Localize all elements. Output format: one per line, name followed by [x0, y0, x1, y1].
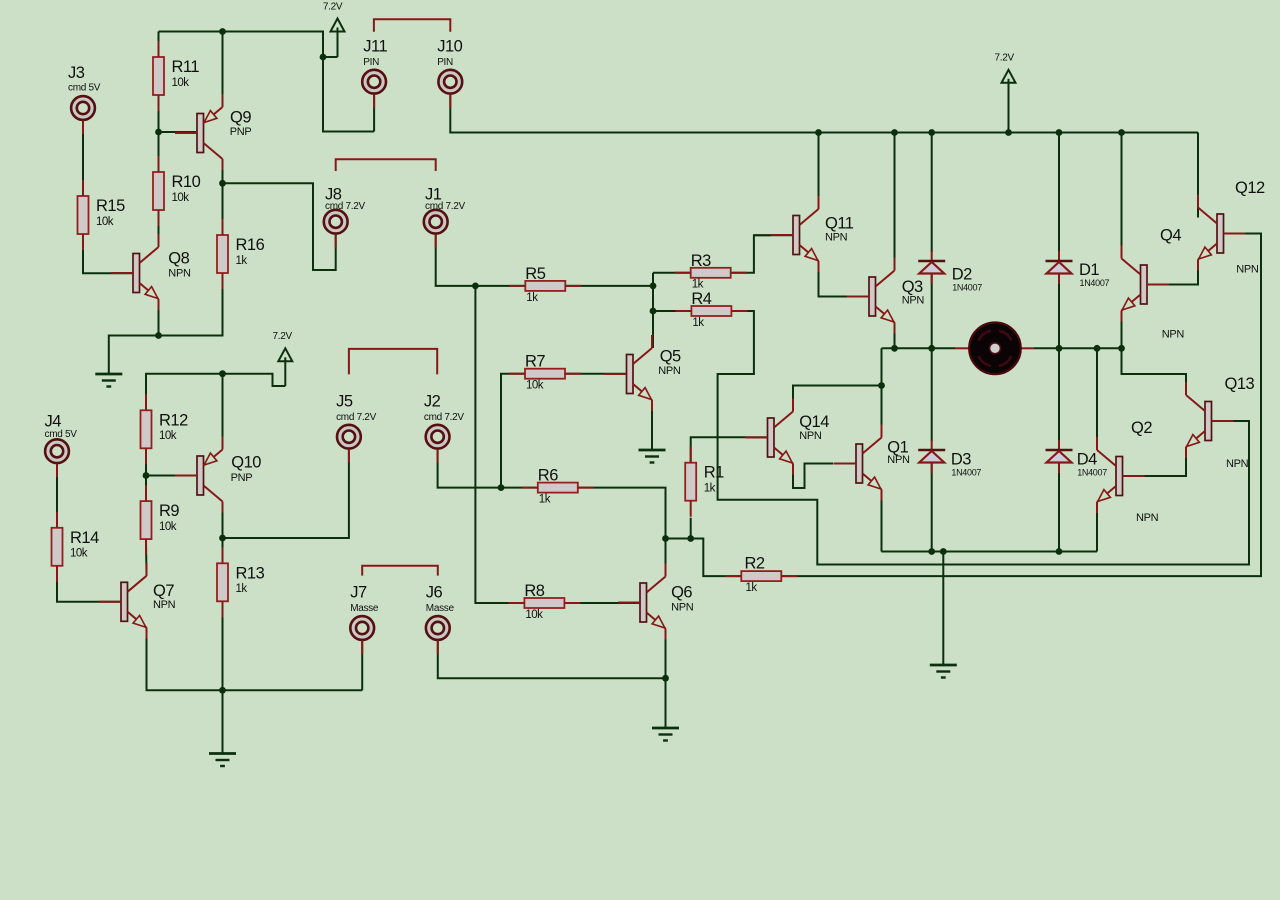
- connector J8: [324, 210, 348, 234]
- ground G5 H-bridge: [930, 664, 957, 667]
- wire Q12 collector: [1197, 133, 1199, 218]
- svg-text:1k: 1k: [692, 317, 704, 329]
- wire Q10 base: [146, 475, 196, 477]
- connector body bracket J7-J6: [362, 566, 438, 576]
- svg-text:NPN: NPN: [153, 599, 176, 611]
- power symbol P3 top-right: [1002, 70, 1016, 83]
- svg-text:10k: 10k: [159, 430, 177, 442]
- diode D4: [1058, 440, 1060, 450]
- wire D1 column: [1058, 133, 1060, 253]
- wire Q4 emitter: [1121, 311, 1123, 349]
- wire Q8 net gnd2 column: [158, 335, 160, 337]
- wire J3 to R15: [82, 121, 84, 197]
- svg-text:J7: J7: [350, 583, 367, 601]
- junction Q10e tap: [219, 370, 226, 377]
- wire R12 bottom node: [145, 450, 147, 475]
- junction rail P3: [1005, 129, 1012, 136]
- svg-text:1k: 1k: [526, 292, 538, 304]
- wire Q11 emitter to Q3 base: [819, 261, 869, 297]
- svg-text:Q3: Q3: [902, 278, 923, 296]
- resistor R8: [524, 598, 564, 608]
- wire Q5 emitter to gnd: [651, 400, 653, 450]
- wire motor row right: [1034, 347, 1122, 349]
- junction J1/R5: [472, 283, 479, 290]
- svg-text:cmd 7.2V: cmd 7.2V: [424, 412, 464, 423]
- wire gnd stub G5: [942, 552, 944, 666]
- resistor R11: [153, 57, 164, 95]
- ground G2 lower-left stage: [209, 752, 236, 755]
- svg-text:Q12: Q12: [1235, 179, 1265, 197]
- wire J2 drop: [438, 449, 538, 488]
- junction node B R1: [687, 535, 694, 542]
- svg-text:1N4007: 1N4007: [1080, 278, 1110, 288]
- svg-text:1k: 1k: [692, 279, 704, 291]
- wire J4 to R14: [56, 464, 58, 528]
- ground G1 left stage: [95, 373, 122, 376]
- wire Q2 collector: [1096, 348, 1098, 450]
- wire Q3 collector: [894, 133, 896, 271]
- svg-text:NPN: NPN: [1226, 458, 1249, 470]
- wire J7 drop: [361, 641, 363, 691]
- svg-text:Q13: Q13: [1225, 375, 1255, 393]
- power symbol P1 top-left: [331, 19, 345, 32]
- wire D1 to motor row: [1058, 274, 1060, 349]
- wire D4 column: [1058, 348, 1060, 441]
- svg-text:PNP: PNP: [231, 472, 253, 484]
- svg-text:NPN: NPN: [799, 430, 822, 442]
- svg-text:Masse: Masse: [426, 603, 455, 614]
- connector J4: [45, 439, 69, 463]
- junction rail Q3: [891, 129, 898, 136]
- svg-text:10k: 10k: [172, 192, 190, 204]
- resistor R14: [52, 528, 63, 566]
- junction D3 bottom: [928, 548, 935, 555]
- svg-text:Q14: Q14: [799, 413, 829, 431]
- resistor R3: [691, 268, 731, 278]
- junction Q8 emitter: [155, 332, 162, 339]
- svg-text:7.2V: 7.2V: [273, 331, 293, 342]
- svg-text:J3: J3: [68, 64, 85, 82]
- connector J11: [362, 70, 386, 94]
- svg-text:PIN: PIN: [363, 57, 379, 68]
- diode D1: [1058, 251, 1060, 261]
- svg-text:NPN: NPN: [902, 295, 925, 307]
- svg-text:PIN: PIN: [437, 57, 453, 68]
- wire motor node down: [881, 348, 883, 385]
- wire motor row: [882, 347, 956, 349]
- wire Q14 collector run: [793, 386, 882, 412]
- junction J2/R7/R6: [498, 484, 505, 491]
- svg-text:Q2: Q2: [1131, 419, 1152, 437]
- svg-text:R14: R14: [70, 529, 99, 547]
- svg-text:1k: 1k: [704, 483, 716, 495]
- connector body bracket J5-J2: [349, 349, 437, 375]
- wire node A to node B: [666, 538, 691, 540]
- svg-text:10k: 10k: [159, 521, 177, 533]
- wire Q4 base to Q12 emitter: [1148, 260, 1198, 285]
- wire R12 feed: [146, 374, 285, 411]
- wire Q4 collector: [1121, 133, 1123, 259]
- wire R9 bottom to Q7 collector: [145, 540, 148, 576]
- svg-text:R7: R7: [525, 353, 545, 371]
- wire Q7 emitter run: [147, 628, 363, 691]
- wire Q13 collector run: [1122, 348, 1187, 395]
- junction rail Q4: [1118, 129, 1125, 136]
- wire D3 column: [931, 348, 933, 441]
- resistor R5: [525, 281, 565, 291]
- svg-text:Q11: Q11: [825, 215, 854, 233]
- svg-text:Q10: Q10: [231, 454, 261, 472]
- svg-text:D2: D2: [952, 266, 972, 284]
- svg-text:Masse: Masse: [350, 603, 379, 614]
- svg-text:J10: J10: [437, 37, 462, 55]
- wire main +7.2V rail from J10: [450, 94, 1198, 133]
- wire Q1 collector: [881, 386, 883, 438]
- svg-text:1k: 1k: [746, 582, 758, 594]
- resistor R12: [141, 410, 152, 448]
- wire R14 to Q7 base: [57, 566, 121, 602]
- junction Q2 collector row: [1094, 345, 1101, 352]
- connector body bracket J8-J1: [336, 159, 436, 171]
- svg-text:R12: R12: [159, 411, 188, 429]
- svg-text:R2: R2: [745, 555, 765, 573]
- transistor Q8 (NPN): [133, 254, 140, 293]
- wire J1 node down to R8: [475, 286, 524, 603]
- connector body bracket J11-J10: [374, 19, 450, 32]
- wire R8 right to Q6 base: [564, 602, 640, 604]
- svg-text:R4: R4: [691, 290, 711, 308]
- ground G3 Q5: [639, 449, 666, 452]
- wire Q9 collector down to node: [222, 159, 224, 183]
- wire node B to R2: [691, 539, 742, 577]
- junction Q9c/R16/J8: [219, 180, 226, 187]
- svg-text:1N4007: 1N4007: [951, 468, 981, 478]
- wire Q13 emitter to Q2 base: [1123, 447, 1187, 476]
- wire R1 bottom to node B: [690, 518, 692, 539]
- resistor R7: [525, 369, 565, 379]
- svg-text:Q7: Q7: [153, 582, 174, 600]
- wire R16 top: [222, 183, 224, 235]
- wire Q14 emitter to Q1 base: [793, 464, 834, 489]
- junction D1/D4 row: [1056, 345, 1063, 352]
- wire D2 to motor row: [931, 274, 933, 349]
- wire Q11 base stub: [754, 234, 771, 236]
- svg-text:NPN: NPN: [887, 454, 910, 466]
- wire D3 to bottom row: [931, 463, 933, 552]
- junction Q3 emitter row: [891, 345, 898, 352]
- svg-text:Q4: Q4: [1160, 226, 1181, 244]
- resistor R4: [691, 306, 731, 316]
- svg-text:R9: R9: [159, 502, 179, 520]
- junction G5 bottom: [940, 548, 947, 555]
- resistor R9: [141, 501, 152, 539]
- svg-text:PNP: PNP: [230, 126, 252, 138]
- wire R5 right to column: [565, 285, 653, 287]
- svg-text:D4: D4: [1077, 451, 1097, 469]
- wire R9 top: [145, 476, 147, 502]
- wire 7.2V rail top-left to J11 feed: [159, 32, 375, 132]
- power symbol P2 mid-left: [278, 348, 292, 361]
- svg-text:R13: R13: [236, 564, 265, 582]
- wire D4 to bottom row: [1058, 463, 1060, 552]
- svg-text:Q8: Q8: [168, 250, 189, 268]
- transistor Q1 (NPN): [856, 444, 863, 483]
- wire J6 to gnd node: [438, 641, 666, 679]
- svg-text:10k: 10k: [172, 77, 190, 89]
- junction Q9 emitter rail: [219, 28, 226, 35]
- transistor Q7 (NPN): [121, 582, 128, 621]
- motor M1: [955, 347, 970, 349]
- wire R13 top to node: [222, 538, 224, 563]
- junction R11/Q9/R10: [155, 129, 162, 136]
- diode D2: [931, 251, 933, 261]
- svg-text:NPN: NPN: [658, 365, 681, 377]
- wire Q6 collector to node A: [665, 539, 667, 577]
- wire gnd stub G2: [222, 690, 224, 753]
- junction R5 column: [650, 283, 657, 290]
- wire R3 left: [653, 272, 691, 274]
- svg-text:NPN: NPN: [671, 602, 694, 614]
- svg-text:7.2V: 7.2V: [323, 1, 343, 12]
- resistor R1: [685, 463, 696, 501]
- svg-text:1k: 1k: [236, 255, 248, 267]
- transistor Q9 (PNP): [197, 114, 204, 153]
- transistor Q13 (NPN): [1205, 402, 1212, 441]
- svg-text:10k: 10k: [70, 548, 88, 560]
- wire bottom H row: [882, 551, 1098, 553]
- wire gnd net Q8/R16: [109, 275, 223, 374]
- svg-text:R15: R15: [96, 197, 125, 215]
- junction Q14c/Q1c: [878, 382, 885, 389]
- svg-text:D3: D3: [951, 451, 971, 469]
- junction D4 bottom: [1056, 548, 1063, 555]
- transistor Q4 (NPN): [1141, 265, 1148, 304]
- junction R4 column: [650, 308, 657, 315]
- wire Q10 collector node to J5: [223, 449, 349, 538]
- svg-text:1N4007: 1N4007: [952, 283, 982, 293]
- wire Q3 emitter: [894, 323, 896, 349]
- wire R15 to Q8 base: [83, 234, 133, 273]
- wire R2 right to Q12 base run: [781, 234, 1261, 577]
- wire Q11 collector: [818, 133, 820, 210]
- transistor Q11 (NPN): [793, 216, 800, 255]
- junction P1 tap: [320, 54, 327, 61]
- wire D2 column: [931, 133, 933, 253]
- wire Q10 emitter up: [222, 374, 224, 450]
- svg-text:R10: R10: [172, 173, 201, 191]
- diode D3: [931, 440, 933, 450]
- svg-text:R8: R8: [524, 582, 544, 600]
- junction rail D2: [928, 129, 935, 136]
- svg-text:NPN: NPN: [1136, 512, 1159, 524]
- resistor R15: [78, 196, 89, 234]
- wire R3 right up to Q11 base: [729, 235, 792, 272]
- wire R7 right to Q5 base: [565, 373, 627, 375]
- wire R13 bottom: [222, 604, 224, 690]
- svg-text:R16: R16: [236, 236, 265, 254]
- transistor Q6 (NPN): [640, 583, 647, 622]
- svg-text:cmd 5V: cmd 5V: [68, 83, 101, 94]
- svg-text:R3: R3: [691, 252, 711, 270]
- svg-text:J2: J2: [424, 392, 441, 410]
- svg-text:D1: D1: [1079, 261, 1099, 279]
- wire Q6 emitter to gnd node: [665, 629, 667, 729]
- transistor Q14 (NPN): [768, 418, 775, 457]
- junction Q6e/J6/G4: [662, 675, 669, 682]
- connector J2: [426, 425, 450, 449]
- connector J10: [438, 70, 462, 94]
- transistor Q2 (NPN): [1116, 457, 1123, 496]
- ground G4 Q6/J6: [652, 727, 679, 730]
- wire Q9 base: [159, 131, 197, 133]
- resistor R2: [741, 571, 781, 581]
- wire R10 top to dot: [158, 132, 160, 172]
- junction R13/J7/G2: [219, 687, 226, 694]
- resistor R16: [217, 235, 228, 273]
- wire R4 left: [653, 310, 691, 312]
- connector J6: [426, 616, 450, 640]
- wire R7 left down to J2 node: [501, 374, 525, 488]
- svg-text:10k: 10k: [526, 380, 544, 392]
- svg-text:R5: R5: [525, 265, 545, 283]
- wire R1 top to Q14 base: [691, 437, 768, 462]
- svg-text:Q6: Q6: [671, 583, 692, 601]
- junction node A Q6c: [662, 535, 669, 542]
- resistor R13: [217, 563, 228, 601]
- svg-text:R6: R6: [538, 467, 558, 485]
- svg-text:R11: R11: [172, 58, 200, 76]
- svg-text:NPN: NPN: [1236, 264, 1259, 276]
- svg-text:10k: 10k: [525, 609, 543, 621]
- svg-text:Q5: Q5: [660, 348, 681, 366]
- svg-text:R1: R1: [704, 464, 724, 482]
- junction rail D1: [1056, 129, 1063, 136]
- wire Q8 emitter to gnd net: [158, 300, 160, 336]
- junction D2/D3 row: [928, 345, 935, 352]
- wire Q2 emitter: [1096, 502, 1098, 552]
- wire R11-R10-Q9 base column: [158, 32, 160, 133]
- svg-text:1k: 1k: [539, 494, 551, 506]
- wire R3 feed column: [652, 273, 654, 348]
- svg-text:1N4007: 1N4007: [1077, 468, 1107, 478]
- svg-text:cmd 7.2V: cmd 7.2V: [425, 201, 465, 212]
- wire J1 drop to R5 node: [436, 234, 526, 286]
- junction Q10c/R13/J5: [219, 535, 226, 542]
- svg-text:cmd 7.2V: cmd 7.2V: [336, 412, 376, 423]
- wire R4 right to Q13 base run: [718, 311, 1249, 565]
- svg-text:J4: J4: [45, 413, 62, 431]
- transistor Q5 (NPN): [627, 355, 634, 394]
- resistor R6: [538, 483, 578, 493]
- svg-text:J6: J6: [426, 583, 443, 601]
- connector J7: [350, 616, 374, 640]
- junction R12/Q10b/R9: [143, 472, 150, 479]
- svg-text:NPN: NPN: [1162, 328, 1185, 340]
- transistor Q3 (NPN): [869, 277, 876, 316]
- wire power stub P1 jog: [323, 56, 338, 58]
- svg-text:10k: 10k: [96, 216, 114, 228]
- wire Q1 emitter: [881, 490, 883, 552]
- wire R10 bottom to Q8 collector: [158, 210, 160, 247]
- svg-text:NPN: NPN: [168, 267, 191, 279]
- svg-text:cmd 5V: cmd 5V: [45, 429, 78, 440]
- transistor Q10 (PNP): [197, 456, 204, 495]
- svg-text:cmd 7.2V: cmd 7.2V: [325, 201, 365, 212]
- transistor Q12 (NPN): [1217, 214, 1224, 253]
- connector J5: [337, 425, 361, 449]
- wire R6 right to Q6 collector: [578, 488, 666, 539]
- svg-text:J5: J5: [336, 392, 353, 410]
- junction Q4e/Q13c row: [1118, 345, 1125, 352]
- connector J1: [424, 210, 448, 234]
- connector J3: [71, 96, 95, 120]
- wire Q9 emitter up: [222, 32, 224, 108]
- svg-text:Q9: Q9: [230, 108, 251, 126]
- svg-text:J11: J11: [363, 37, 387, 55]
- wire node Q9c/R16/J8: [223, 183, 336, 270]
- svg-text:1k: 1k: [236, 583, 248, 595]
- svg-text:NPN: NPN: [825, 231, 848, 243]
- junction rail Q11: [815, 129, 822, 136]
- svg-text:7.2V: 7.2V: [995, 53, 1015, 64]
- resistor R10: [153, 172, 164, 210]
- wire J11 pin drop: [373, 94, 375, 132]
